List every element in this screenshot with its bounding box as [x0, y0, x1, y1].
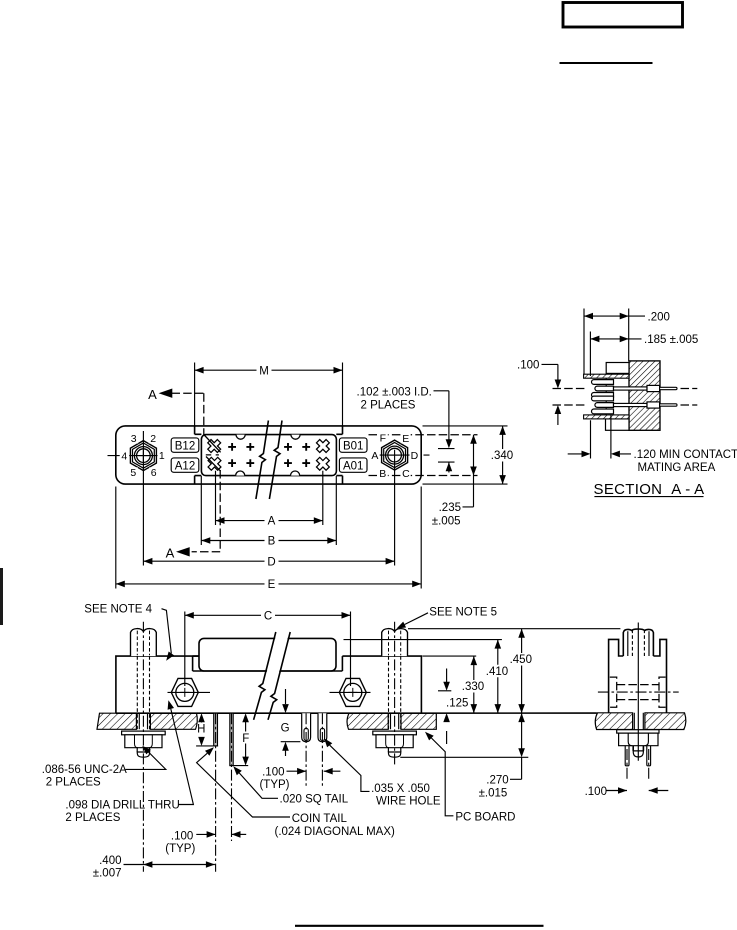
shell top extension line — [344, 639, 502, 641]
svg-text:A: A — [268, 516, 276, 528]
square tail — [230, 713, 233, 765]
contact 2 pin body — [595, 403, 614, 408]
section body block (hatched) — [629, 361, 660, 430]
board hole shank lines right — [391, 713, 399, 729]
dimension A — [216, 520, 323, 522]
side view break line right — [268, 632, 290, 720]
jackpost stud left — [131, 629, 157, 656]
svg-text:.235: .235 — [439, 502, 461, 514]
mount stack left (washer nut screw) — [122, 731, 166, 757]
svg-text:E: E — [402, 433, 409, 445]
svg-text:2 PLACES: 2 PLACES — [65, 812, 120, 824]
drill hole hidden lines left — [137, 656, 149, 729]
svg-text:4: 4 — [121, 450, 127, 462]
svg-text:F: F — [242, 733, 249, 745]
svg-text:±.007: ±.007 — [93, 868, 122, 880]
dimension B — [201, 540, 336, 542]
section body lower step — [606, 419, 630, 430]
flange top extension line — [423, 655, 477, 657]
svg-text:.270: .270 — [486, 775, 508, 787]
wire hole callout .035 x .050 — [324, 738, 332, 747]
svg-text:C: C — [264, 610, 272, 622]
insert polarization notch bottom 2 — [291, 471, 300, 476]
screwlock hex left — [171, 678, 198, 706]
end view stud — [623, 629, 653, 656]
change bar (left margin) — [0, 568, 3, 625]
drill hole hidden lines right — [389, 656, 401, 729]
title block box (top right) — [563, 3, 683, 28]
svg-text:.035 X .050: .035 X .050 — [371, 783, 430, 795]
svg-text:±.015: ±.015 — [479, 787, 508, 799]
section shell bottom wall (hatched) — [584, 415, 629, 419]
svg-text:.450: .450 — [510, 654, 532, 666]
nut position digits — [120, 433, 166, 479]
hex nut right (mounting hole A-F) — [382, 440, 408, 470]
dimension .410 — [497, 640, 499, 714]
stud top extension line — [408, 628, 620, 630]
hidden insert edge dashed (top, to .235 ext) — [369, 434, 478, 436]
X contact A12 — [205, 454, 224, 473]
end view tail right — [647, 746, 651, 766]
wire-hole tail 1 centerline — [305, 713, 307, 788]
plus contacts row 2 — [228, 459, 310, 467]
contact label box B12 — [171, 438, 199, 452]
side view break line left — [254, 632, 276, 720]
svg-text:(TYP): (TYP) — [259, 779, 289, 791]
PC board left piece (hatched) — [97, 713, 136, 729]
dimension A extension lines — [216, 471, 323, 525]
svg-text:.200: .200 — [648, 311, 670, 323]
contact label box B01 — [339, 438, 367, 452]
section body top notch — [606, 363, 629, 374]
X contact B12 — [205, 436, 224, 455]
plus contacts row 1 — [228, 443, 310, 451]
jackpost stud right — [382, 629, 408, 656]
svg-text:A12: A12 — [175, 460, 195, 472]
contact 2 fork tines — [592, 396, 614, 414]
board hole shank lines left — [139, 713, 147, 729]
section line dashes (bottom) — [192, 470, 221, 552]
contact 2 mating centerline dashes (left) — [553, 404, 587, 406]
insert polarization notch bottom 1 — [236, 471, 245, 476]
dimension .330 — [473, 656, 475, 713]
contact 1 tail centerline dashes — [681, 388, 698, 390]
coin tail centerline — [215, 713, 217, 872]
end view nut — [619, 733, 658, 746]
section line dashes (top) — [172, 393, 204, 435]
svg-text:.102 ±.003 I.D.: .102 ±.003 I.D. — [357, 386, 432, 398]
end view board hole shank lines — [634, 713, 643, 730]
svg-text:5: 5 — [130, 467, 136, 479]
right nut vertical centerline / D extension — [394, 461, 396, 566]
right nut horizontal centerline — [371, 454, 430, 456]
svg-text:F: F — [380, 433, 386, 445]
svg-text:.098 DIA DRILL THRU: .098 DIA DRILL THRU — [65, 799, 179, 811]
svg-text:.020 SQ TAIL: .020 SQ TAIL — [280, 794, 349, 806]
svg-text:B01: B01 — [343, 440, 363, 452]
end view pc board (hatched) — [595, 713, 632, 730]
end view hidden screwlock right — [659, 677, 666, 707]
left nut vertical centerline / D extension — [142, 431, 144, 566]
svg-text:(.024 DIAGONAL MAX): (.024 DIAGONAL MAX) — [275, 826, 396, 838]
svg-text:3: 3 — [131, 433, 137, 445]
svg-text:.120 MIN CONTACT: .120 MIN CONTACT — [634, 449, 737, 461]
svg-text:E: E — [268, 579, 276, 591]
insert polarization notch top 1 — [236, 435, 245, 440]
stud centerline left — [142, 622, 144, 872]
insert shell trough — [199, 638, 336, 671]
contact 1 tail pin — [660, 387, 677, 389]
pc board label — [425, 732, 434, 741]
section shell top wall (hatched) — [584, 374, 629, 378]
end view tail left — [625, 746, 629, 766]
svg-text:B: B — [268, 536, 276, 548]
svg-text:.340: .340 — [491, 450, 513, 462]
end view stud thread lines — [628, 631, 649, 656]
svg-text:.100: .100 — [585, 786, 607, 798]
contact 2 tail centerline dashes — [681, 404, 698, 406]
svg-text:.125: .125 — [446, 697, 468, 709]
X contact A01 — [313, 454, 332, 473]
svg-text:A01: A01 — [343, 460, 363, 472]
end view screw shank and tip — [633, 746, 643, 751]
svg-text:.330: .330 — [462, 681, 484, 693]
contact 1 fork tines — [592, 380, 614, 398]
coin tail callout — [205, 747, 214, 756]
connector body outline — [116, 426, 421, 484]
svg-text:.086-56 UNC-2A: .086-56 UNC-2A — [42, 764, 127, 776]
svg-text:A: A — [371, 450, 378, 462]
dimension M extension lines — [195, 363, 343, 426]
dimension .450 — [521, 629, 523, 713]
heading underline (top right) — [560, 62, 653, 64]
svg-text:SECTION A - A: SECTION A - A — [594, 481, 705, 498]
svg-text:PC BOARD: PC BOARD — [455, 811, 515, 823]
svg-text:D: D — [267, 556, 275, 568]
svg-text:±.005: ±.005 — [432, 515, 461, 527]
dimension H — [196, 745, 218, 747]
svg-text:A: A — [166, 545, 175, 560]
svg-text:SEE NOTE 5: SEE NOTE 5 — [429, 607, 497, 619]
hidden insert edge dashed (bottom, to .235 ext) — [369, 475, 478, 477]
dimension M — [195, 369, 343, 371]
.020 sq tail callout — [233, 766, 242, 775]
svg-text:(TYP): (TYP) — [165, 843, 195, 855]
dimension .185 — [590, 338, 641, 340]
PC board right piece (hatched) — [347, 713, 388, 729]
wire-hole tail 1 — [302, 713, 311, 742]
end view body outline — [609, 639, 667, 712]
flange body outline — [116, 656, 422, 713]
shell bottom line — [193, 670, 343, 672]
section line diagonal through left X contacts — [204, 435, 220, 471]
end view washer — [617, 730, 659, 733]
svg-text:.100: .100 — [262, 766, 284, 778]
tail tip extension line (.270) — [400, 756, 528, 758]
screwlock right centerline — [330, 691, 371, 693]
side view break gap mask — [266, 634, 289, 676]
coin tail — [214, 713, 218, 746]
svg-text:6: 6 — [151, 467, 157, 479]
dimension E extension lines — [116, 487, 421, 589]
svg-text:C: C — [402, 468, 410, 480]
svg-text:A: A — [148, 387, 157, 402]
contact 1 pin body — [595, 386, 614, 391]
insert base extension line (.125) — [438, 690, 451, 692]
svg-text:1: 1 — [159, 450, 165, 462]
insert polarization notch top 2 — [291, 435, 300, 440]
dimension C — [185, 614, 351, 616]
svg-text:D: D — [411, 450, 419, 462]
dimension F — [245, 720, 247, 760]
break line front right — [269, 421, 282, 500]
hole I.D. edge lines — [438, 449, 455, 463]
wire-hole tail 2 centerline — [321, 713, 323, 788]
svg-text:.100: .100 — [171, 830, 193, 842]
svg-text:.410: .410 — [486, 666, 508, 678]
insert outline — [201, 435, 336, 476]
dimension .120 min contact — [568, 453, 631, 455]
contact 2 wall block — [647, 402, 660, 408]
stud centerline right — [394, 622, 396, 766]
svg-text:B12: B12 — [175, 440, 195, 452]
end view tail centerlines — [626, 749, 628, 780]
end view hidden screwlock left — [610, 677, 617, 707]
nut position letters — [370, 433, 419, 481]
svg-text:B: B — [379, 468, 386, 480]
wire-hole tail 2 — [318, 713, 327, 742]
hex nut left (mounting hole 1-6) — [130, 441, 156, 471]
dimension .340 extension lines — [423, 426, 508, 484]
contact 1 mating centerline dashes (left) — [553, 388, 587, 390]
contact 2 tail pin — [660, 404, 677, 406]
dimension D — [143, 560, 394, 562]
svg-text:2: 2 — [150, 433, 156, 445]
dimension .200 extension lines — [584, 309, 629, 375]
left nut horizontal centerline — [108, 455, 159, 457]
svg-text:.185 ±.005: .185 ±.005 — [644, 334, 698, 346]
dimension B extension lines — [201, 476, 336, 545]
dimension .120 extension lines — [591, 416, 611, 459]
end view hidden hole lines — [617, 685, 659, 700]
svg-text:COIN TAIL: COIN TAIL — [292, 813, 348, 825]
svg-text:.400: .400 — [99, 855, 121, 867]
insert face line — [605, 378, 607, 415]
dimension .125 (outside arrows) — [446, 669, 448, 745]
shell end tab left — [193, 656, 199, 671]
svg-text:WIRE HOLE: WIRE HOLE — [376, 796, 441, 808]
dimension .340 — [502, 426, 504, 484]
square tail centerline — [231, 713, 233, 841]
section line jog dashes between X contacts — [206, 454, 219, 456]
svg-text:MATING AREA: MATING AREA — [638, 462, 716, 474]
svg-text:.100: .100 — [517, 359, 539, 371]
dimension C extension lines — [185, 612, 351, 687]
svg-text:H: H — [197, 723, 205, 735]
contact 1 wall block — [647, 385, 660, 391]
dimension .270 — [510, 713, 522, 779]
dimension .185 extension line — [589, 332, 591, 377]
insert right tab — [336, 426, 342, 484]
svg-text:G: G — [281, 722, 290, 734]
X contact B01 — [313, 436, 332, 455]
end view stud centerline — [637, 623, 639, 761]
screwlock left centerline — [168, 691, 211, 693]
svg-text:2 PLACES: 2 PLACES — [361, 399, 416, 411]
dimension .235 — [463, 435, 474, 507]
dimension .200 — [584, 315, 645, 317]
shell end tab right — [341, 656, 343, 671]
dimension G (outside arrows) — [285, 689, 287, 756]
contact label box A12 — [171, 458, 199, 472]
body bottom / board top line — [116, 712, 597, 714]
screwlock hex right — [339, 678, 366, 706]
footer rule (bottom center) — [295, 925, 544, 927]
svg-text:2 PLACES: 2 PLACES — [46, 777, 101, 789]
mount stack right — [373, 731, 417, 757]
insert left tab — [195, 426, 202, 484]
svg-text:M: M — [259, 365, 269, 377]
dimension E — [116, 583, 421, 585]
svg-text:SEE NOTE 4: SEE NOTE 4 — [84, 604, 152, 616]
contact label box A01 — [339, 458, 367, 472]
break line front left — [256, 421, 269, 500]
end view horizontal centerline — [598, 691, 679, 693]
